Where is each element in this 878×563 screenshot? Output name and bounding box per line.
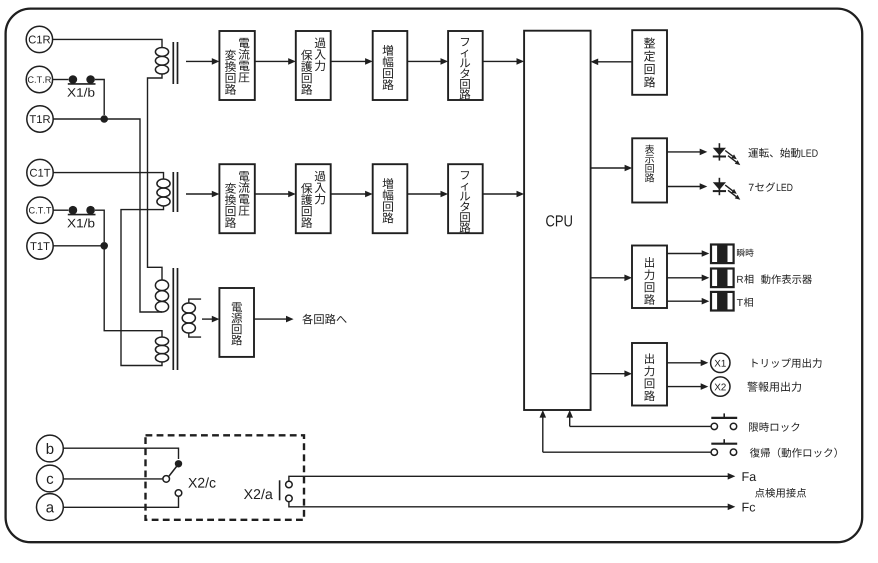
label 警報用出力 bbox=[747, 382, 757, 392]
terminal C.T.T bbox=[27, 197, 53, 223]
arrow to indicator 瞬時 bbox=[667, 253, 703, 255]
arrow to 過入力保護回路 (R) bbox=[255, 60, 289, 62]
transformer T2 core bbox=[172, 172, 174, 212]
wire T1 coil bottom to power transformer P1 top bbox=[148, 74, 163, 280]
arrow to CPU (T) bbox=[483, 193, 518, 195]
block setting 整定回路 bbox=[632, 30, 667, 95]
terminal C.T.R bbox=[26, 66, 52, 92]
label 復帰（動作ロック） bbox=[750, 448, 760, 458]
terminal a bbox=[37, 494, 64, 521]
wire contact to junction bbox=[95, 80, 104, 116]
block output 出力回路 (relays) bbox=[632, 343, 667, 406]
arrow to relay X2 bbox=[667, 386, 702, 388]
block amplifier 増幅回路 (R) bbox=[373, 31, 408, 100]
wire b to contact X2/c bbox=[63, 448, 179, 459]
label 瞬時 bbox=[737, 249, 745, 257]
pushbutton 復帰 bbox=[711, 449, 717, 455]
relay output X1 bbox=[711, 353, 730, 372]
pushbutton 限時ロック bbox=[711, 423, 717, 429]
label 7セグLED bbox=[749, 184, 754, 191]
power transformer primary P1 coil bbox=[155, 280, 168, 291]
LED D1 run/start bbox=[718, 143, 720, 160]
relay contact boundary (dashed) bbox=[146, 435, 305, 520]
power transformer primary P2 coil bbox=[155, 337, 168, 345]
node X2/c NC bbox=[175, 460, 182, 467]
terminal c bbox=[37, 465, 64, 492]
transformer T2 primary coil bbox=[157, 179, 170, 188]
transformer T1 core bbox=[172, 42, 174, 84]
arrow display to LED2 bbox=[667, 186, 701, 188]
arrow T2 secondary to conversion block T bbox=[186, 193, 213, 195]
transformer T1 primary coil bbox=[155, 48, 168, 57]
arrow power supply output bbox=[254, 318, 287, 320]
wire T2 coil bottom to power transformer P2 bottom bbox=[121, 206, 164, 366]
block over-input protection 過入力保護回路 (R) bbox=[296, 31, 331, 100]
wire C.T.R to contact X1/b bbox=[53, 79, 69, 81]
wire c to contact X2/c common bbox=[63, 478, 163, 480]
wire a to contact X2/c NO bbox=[63, 497, 179, 508]
terminal T1T bbox=[27, 233, 53, 259]
wire C1R to transformer T1 primary bbox=[53, 39, 162, 47]
block current-voltage conversion 電流電圧変換回路 (R) bbox=[219, 31, 254, 100]
arrow to 増幅回路 (R) bbox=[331, 60, 367, 62]
power transformer core bbox=[172, 268, 174, 370]
arrow to フィルタ回路 (R) bbox=[407, 60, 441, 62]
node junction R bbox=[100, 115, 108, 123]
label T相 bbox=[737, 299, 743, 306]
terminal b bbox=[37, 435, 64, 462]
arrow to CPU (R) bbox=[483, 60, 518, 62]
indicator target 瞬時 bbox=[711, 245, 734, 264]
wire T1R to power transformer P1 bottom bbox=[53, 119, 162, 312]
block filter フィルタ回路 (T) bbox=[448, 164, 483, 233]
secondary top lead bbox=[189, 299, 201, 303]
block amplifier 増幅回路 (T) bbox=[373, 164, 408, 233]
contact X2/c NO bbox=[175, 490, 182, 497]
contact X2/c common bbox=[163, 476, 170, 483]
indicator target R相 bbox=[711, 269, 734, 288]
label 点検用接点 bbox=[755, 488, 764, 498]
wire T1T junction to power transformer P2 top bbox=[54, 246, 163, 337]
block power supply 電源回路 bbox=[219, 288, 254, 357]
contact X2/a circles bbox=[286, 481, 293, 488]
block output 出力回路 (indicators) bbox=[632, 246, 667, 309]
secondary bottom lead bbox=[189, 333, 201, 337]
terminal C1R bbox=[26, 26, 52, 52]
node junction T bbox=[100, 242, 108, 250]
contact X1/b (T) bbox=[69, 206, 78, 215]
wire C.T.T to contact X1/b bbox=[53, 209, 68, 211]
block display 表示回路 bbox=[632, 138, 667, 202]
label 各回路へ bbox=[302, 314, 313, 325]
label X2/a bbox=[244, 489, 253, 499]
relay output X2 bbox=[711, 377, 730, 396]
power transformer secondary coil bbox=[182, 303, 195, 313]
contact X2/c moving arm bbox=[169, 464, 179, 476]
arrow display to LED1 bbox=[667, 151, 701, 153]
label 限時ロック bbox=[749, 423, 758, 432]
arrow CPU to output 1 bbox=[591, 277, 626, 279]
wire contact to junction T bbox=[95, 210, 104, 242]
LED D2 7seg bbox=[718, 178, 720, 195]
block current-voltage conversion 電流電圧変換回路 (T) bbox=[219, 164, 254, 233]
label X2/c bbox=[188, 478, 197, 488]
arrow T1 secondary to conversion block R bbox=[186, 60, 213, 62]
arrow to 増幅回路 (T) bbox=[331, 193, 367, 195]
wire 復帰 to CPU bbox=[543, 451, 711, 453]
label X1/b (R) bbox=[67, 88, 75, 96]
arrow to フィルタ回路 (T) bbox=[407, 193, 441, 195]
contact X1/b (R) bbox=[69, 75, 78, 84]
wire X2/a to Fa bbox=[289, 476, 729, 481]
arrow secondary to power supply block bbox=[202, 318, 213, 320]
wire X2/a to Fc bbox=[289, 502, 729, 507]
label Fa bbox=[743, 472, 749, 481]
label 動作表示器 bbox=[761, 275, 770, 284]
terminal C1T bbox=[27, 159, 53, 185]
wire 限時ロック to CPU bbox=[570, 425, 711, 427]
arrow setting to CPU bbox=[597, 61, 632, 63]
block filter フィルタ回路 (R) bbox=[448, 31, 483, 100]
wire C1T to transformer T2 primary bbox=[53, 173, 163, 179]
arrow CPU to display bbox=[591, 167, 626, 169]
label 運転、始動LED bbox=[748, 148, 758, 157]
arrow CPU to output 2 bbox=[591, 373, 626, 375]
indicator target T相 bbox=[711, 292, 734, 311]
arrow to relay X1 bbox=[667, 362, 702, 364]
label トリップ用出力 bbox=[752, 359, 757, 367]
arrow to 過入力保護回路 (T) bbox=[255, 193, 289, 195]
label X1/b (T) bbox=[67, 219, 75, 227]
contact X2/a bar bbox=[279, 480, 281, 500]
arrow to indicator T相 bbox=[667, 300, 703, 302]
terminal T1R bbox=[27, 106, 53, 132]
label R相 bbox=[737, 276, 743, 283]
label Fc bbox=[743, 503, 749, 512]
block over-input protection 過入力保護回路 (T) bbox=[296, 164, 331, 233]
arrow to indicator R相 bbox=[667, 277, 703, 279]
block CPU bbox=[524, 31, 591, 410]
